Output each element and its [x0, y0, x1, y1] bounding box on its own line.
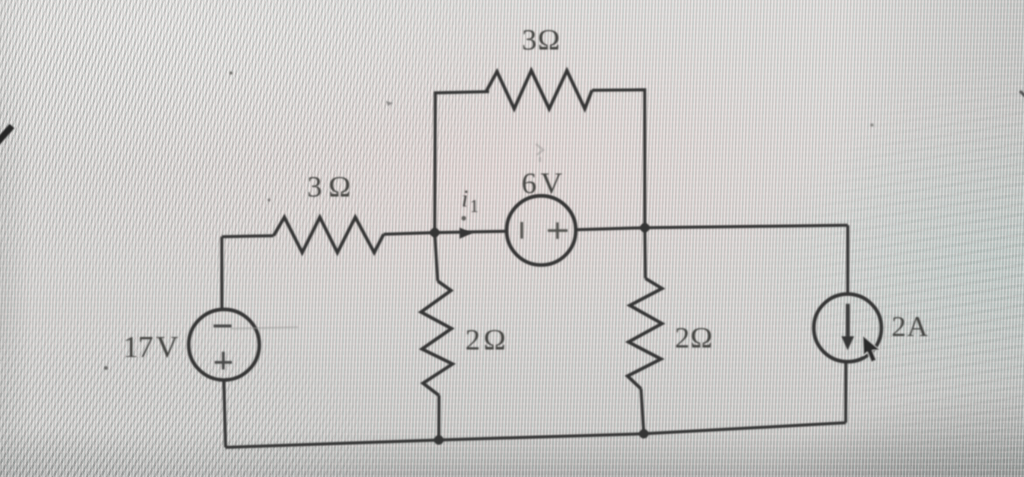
photo artifact streak top-left edge — [0, 126, 12, 144]
6V source plus sign — [548, 222, 568, 239]
svg-text:Ω: Ω — [538, 24, 560, 57]
wire: top loop right side down to node B — [592, 90, 645, 228]
svg-text:6: 6 — [522, 167, 537, 200]
voltage source V2 6V circle — [507, 196, 576, 265]
svg-text:2: 2 — [675, 322, 690, 355]
svg-text:1: 1 — [470, 196, 479, 216]
wire: top-right corner down to 2A source top — [846, 225, 849, 294]
smudge artifact above 6V source — [536, 144, 543, 162]
svg-text:i: i — [462, 187, 469, 213]
node B' junction dot — [639, 429, 648, 438]
svg-text:A: A — [907, 311, 928, 343]
wire: bottom rail — [226, 423, 846, 448]
17V source plus sign — [215, 352, 232, 370]
wire: resistor R1 to node A — [384, 233, 435, 235]
svg-text:Ω: Ω — [690, 322, 712, 355]
resistor R3 2-ohm vertical left — [421, 281, 453, 395]
svg-text:V: V — [156, 329, 179, 364]
wire: node A to 6V source left terminal — [435, 231, 507, 232]
wire: node A down to resistor R3 — [435, 233, 438, 281]
resistor R4 2-ohm vertical right — [628, 278, 663, 388]
wire: bottom-left corner up to 17V source bottom — [224, 380, 226, 448]
6V source minus sign (rotated) — [520, 222, 523, 239]
right edge nub — [1020, 91, 1024, 97]
wire: top loop left vertical (node A up) — [435, 92, 489, 233]
svg-text:Ω: Ω — [329, 170, 351, 203]
speck under i1 — [462, 216, 467, 221]
svg-text:7: 7 — [138, 329, 154, 364]
node A' junction dot — [434, 435, 443, 444]
speck right area — [870, 123, 873, 126]
speck mid-left — [268, 199, 271, 202]
node A junction dot — [430, 228, 439, 237]
17V source minus sign — [214, 325, 232, 328]
wire: 17V source top to mid-rail left corner — [220, 237, 223, 310]
svg-text:3: 3 — [522, 24, 537, 57]
2A source arrow — [846, 304, 850, 339]
speck arrow-like mark — [386, 101, 393, 106]
resistor R1 3-ohm horizontal left — [274, 217, 384, 252]
svg-text:Ω: Ω — [484, 324, 506, 357]
voltage source V1 17V circle — [189, 309, 260, 380]
wire: 6V source right terminal to node B — [576, 228, 645, 230]
wire: node B down to resistor R4 — [643, 228, 647, 279]
svg-text:1: 1 — [123, 329, 139, 364]
svg-text:2: 2 — [465, 324, 480, 357]
speck top — [229, 71, 232, 74]
resistor R2 3-ohm horizontal top — [486, 71, 592, 109]
wire: node B to top-right corner — [645, 225, 848, 227]
node B junction dot — [640, 223, 649, 232]
wire: 2A source bottom to bottom-right corner — [844, 361, 847, 423]
svg-text:3: 3 — [307, 170, 322, 203]
wire: resistor R3 to bottom node A' — [437, 395, 440, 440]
svg-text:2: 2 — [892, 311, 907, 343]
svg-text:V: V — [541, 167, 563, 200]
ghost artifact line right of 17V minus — [231, 327, 298, 328]
speck left of 17V — [104, 366, 108, 370]
current source I1 2A circle — [814, 294, 882, 362]
wire: mid rail left segment (corner to 3-ohm resistor) — [222, 236, 274, 237]
current arrow i1 head — [460, 228, 473, 239]
mouse cursor — [863, 335, 881, 362]
wire: resistor R4 to bottom node B' — [641, 389, 644, 434]
